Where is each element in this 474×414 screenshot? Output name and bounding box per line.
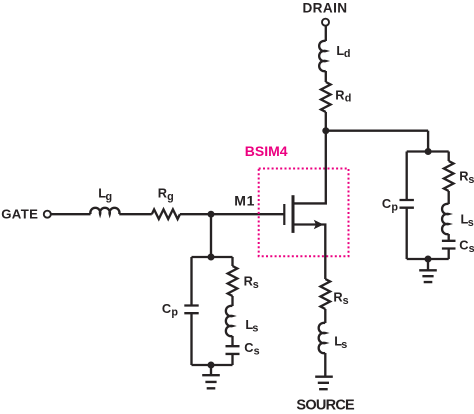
svg-text:R: R <box>244 273 253 288</box>
svg-text:GATE: GATE <box>1 207 38 222</box>
svg-text:s: s <box>343 295 349 307</box>
svg-text:C: C <box>162 301 171 316</box>
wire left network top rail <box>192 256 233 258</box>
wire left RLC branch down <box>231 257 233 266</box>
gate terminal circle <box>44 211 51 218</box>
capacitor Cs (right network) <box>442 241 456 249</box>
inductor Lg <box>90 208 119 214</box>
BSIM4 dotted box <box>259 169 349 257</box>
label Rs left <box>244 273 259 291</box>
svg-text:R: R <box>158 186 167 201</box>
svg-text:d: d <box>344 48 351 60</box>
label Cs right <box>459 237 474 255</box>
svg-text:R: R <box>333 289 342 304</box>
label Ls source <box>334 333 347 351</box>
label Ls left <box>245 317 258 335</box>
svg-text:s: s <box>468 174 474 186</box>
wire right network top rail <box>407 150 449 152</box>
svg-text:d: d <box>345 93 352 105</box>
inductor Ls (left network) <box>226 306 233 336</box>
node left network top <box>208 254 215 261</box>
svg-text:s: s <box>253 279 259 291</box>
svg-text:g: g <box>106 191 113 203</box>
svg-text:M1: M1 <box>234 193 255 209</box>
label Ld <box>336 43 350 60</box>
wire Ls to Cs left <box>231 336 233 346</box>
ground (left network) <box>202 365 220 388</box>
node left network bottom <box>208 362 215 369</box>
svg-text:p: p <box>171 307 178 319</box>
wire gate terminal to Lg <box>51 213 91 215</box>
wire Rs to Ls left <box>231 296 233 306</box>
svg-text:SOURCE: SOURCE <box>296 398 355 414</box>
wire left Cp to bottom rail <box>190 313 192 365</box>
svg-text:R: R <box>335 87 344 102</box>
svg-text:s: s <box>469 243 474 255</box>
svg-text:s: s <box>254 346 260 358</box>
resistor Rs (source branch) <box>320 279 330 309</box>
label Rg <box>158 186 174 204</box>
wire Rs to Ls source <box>324 309 326 323</box>
label Rs right <box>459 169 474 187</box>
inductor Ld <box>319 41 326 71</box>
wire Cs to bottom rail left <box>231 354 233 365</box>
wire Ls to ground <box>324 353 326 377</box>
wire right Cp branch down <box>406 152 408 201</box>
wire right Cp to bottom rail <box>406 208 408 259</box>
inductor Ls (source branch) <box>319 323 326 353</box>
resistor Rs (left network) <box>228 266 238 296</box>
wire drain junction to right network (horizontal) <box>326 130 428 132</box>
wire gate junction down to left network <box>210 214 212 257</box>
svg-text:p: p <box>391 201 398 213</box>
svg-text:s: s <box>252 322 258 334</box>
wire right RLC branch down <box>448 152 450 162</box>
wire right network bottom rail <box>407 258 449 260</box>
wire Lg to Rg <box>119 213 152 215</box>
wire down to right network top node <box>427 131 429 152</box>
capacitor Cp (left network) <box>184 306 198 314</box>
svg-text:C: C <box>382 196 391 211</box>
label Rd <box>335 87 351 104</box>
label Cs left <box>244 340 259 358</box>
svg-text:s: s <box>468 217 474 229</box>
inductor Ls (right network) <box>442 204 449 234</box>
wire Rg to MOSFET gate <box>180 213 284 215</box>
drain terminal circle <box>322 19 329 26</box>
node drain junction <box>322 127 329 134</box>
wire Ls to Cs right <box>448 234 450 241</box>
wire Ld to Rd <box>325 71 327 82</box>
transistor M1 gate bar <box>283 204 285 225</box>
node right network bottom <box>425 256 432 263</box>
capacitor Cp (right network) <box>400 200 414 208</box>
label Lg <box>98 186 112 204</box>
node gate junction <box>208 211 215 218</box>
ground (right network) <box>419 259 437 282</box>
transistor M1 source lead <box>293 225 325 280</box>
capacitor Cs (left network) <box>226 346 240 354</box>
transistor M1 source arrow <box>314 220 324 229</box>
svg-text:R: R <box>459 169 468 184</box>
svg-text:s: s <box>341 339 347 351</box>
resistor Rg <box>152 209 180 219</box>
label Cp right <box>382 196 399 214</box>
wire Cs to bottom rail right <box>448 249 450 260</box>
label Ls right <box>461 211 474 229</box>
wire drain terminal to Ld <box>325 26 327 41</box>
label Cp left <box>162 301 179 319</box>
transistor M1 channel bar <box>292 195 295 233</box>
svg-text:C: C <box>244 340 253 355</box>
transistor M1 drain lead <box>293 131 326 204</box>
label Rs source <box>333 289 348 307</box>
svg-text:g: g <box>167 191 174 203</box>
svg-text:DRAIN: DRAIN <box>302 1 347 16</box>
wire Rs to Ls right <box>448 191 450 204</box>
resistor Rd <box>321 82 331 112</box>
resistor Rs (right network) <box>444 161 454 191</box>
wire Rd to drain junction <box>325 112 327 131</box>
svg-text:BSIM4: BSIM4 <box>245 143 288 159</box>
wire left network bottom rail <box>192 364 233 366</box>
wire left Cp branch down <box>190 257 192 306</box>
node right network top <box>425 148 432 155</box>
svg-text:C: C <box>459 237 468 252</box>
ground (source) <box>315 377 333 390</box>
